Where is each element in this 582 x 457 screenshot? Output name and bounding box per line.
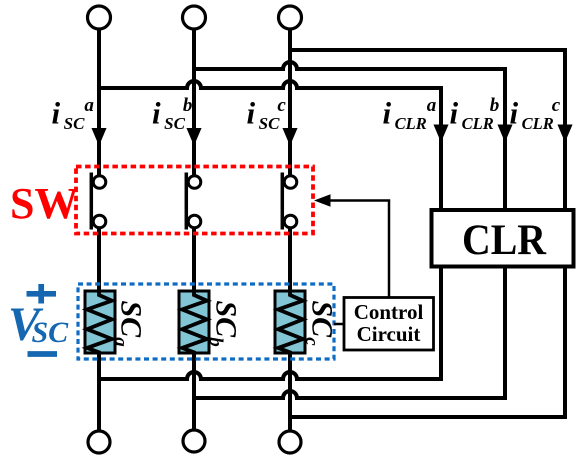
- switch S1 bottom contact: [93, 215, 106, 228]
- switch S2 top contact: [188, 176, 201, 189]
- svg-text:SC: SC: [32, 316, 70, 349]
- terminal circle phase b bottom: [183, 430, 205, 452]
- switch S3 blade (phase c): [281, 173, 285, 230]
- arrow i_CLR^c: [558, 125, 572, 141]
- wire CLR return phase b (hop over c): [194, 266, 505, 398]
- wire phase b lower vertical: [192, 228, 196, 432]
- wire branch c to CLR: [290, 50, 565, 210]
- switch S2 blade (phase b): [185, 173, 189, 230]
- wire phase c lower vertical: [288, 228, 292, 432]
- wire branch a to CLR (hops over b and c): [99, 81, 441, 210]
- svg-text:CLR: CLR: [462, 217, 547, 264]
- svg-text:SW: SW: [10, 179, 78, 228]
- wire phase b vertical: [192, 30, 196, 177]
- terminal circle phase a bottom: [88, 431, 110, 453]
- arrow i_SC^b: [187, 129, 201, 145]
- label V_SC minus sign: [28, 351, 58, 357]
- switch S3 top contact: [284, 176, 297, 189]
- arrow i_SC^a: [92, 129, 106, 145]
- arrow control to SW: [316, 195, 331, 206]
- supercapacitor SCb body: [179, 291, 209, 353]
- svg-text:Control: Control: [354, 300, 424, 324]
- wire CLR return phase a (hops over c and b): [99, 266, 441, 379]
- SW box (red dashed): [76, 167, 313, 234]
- wire branch b to CLR (hop over c): [194, 62, 505, 210]
- control wire stub to V_SC box: [334, 323, 344, 326]
- switch S3 bottom contact: [284, 215, 297, 228]
- V_SC box (blue dashed): [78, 284, 334, 359]
- control circuit box U1: [344, 298, 434, 351]
- terminal circle phase a top: [88, 6, 111, 29]
- svg-text:Circuit: Circuit: [357, 322, 421, 346]
- terminal circle phase c top: [279, 6, 302, 29]
- supercapacitor SCb zigzag: [182, 289, 207, 356]
- supercapacitor SCa body: [85, 291, 115, 353]
- wire phase a lower vertical: [97, 228, 101, 432]
- wire phase a vertical: [97, 30, 101, 177]
- switch S2 bottom contact: [188, 215, 201, 228]
- wire phase c vertical: [288, 30, 292, 177]
- terminal circle phase b top: [183, 6, 206, 29]
- arrow i_CLR^b: [498, 125, 512, 141]
- terminal circle phase c bottom: [279, 431, 301, 453]
- switch S1 top contact: [93, 176, 106, 189]
- supercapacitor SCc zigzag: [278, 289, 303, 356]
- supercapacitor SCc body: [275, 291, 305, 353]
- switch S1 blade (phase a): [90, 173, 94, 230]
- arrow i_CLR^a: [434, 125, 448, 141]
- control wire to SW: [328, 201, 389, 298]
- wire CLR return phase c: [290, 266, 565, 417]
- arrow i_SC^c: [283, 129, 297, 145]
- supercapacitor SCa zigzag: [87, 289, 112, 356]
- label V_SC plus sign: [27, 284, 57, 304]
- CLR box U2: [432, 210, 574, 267]
